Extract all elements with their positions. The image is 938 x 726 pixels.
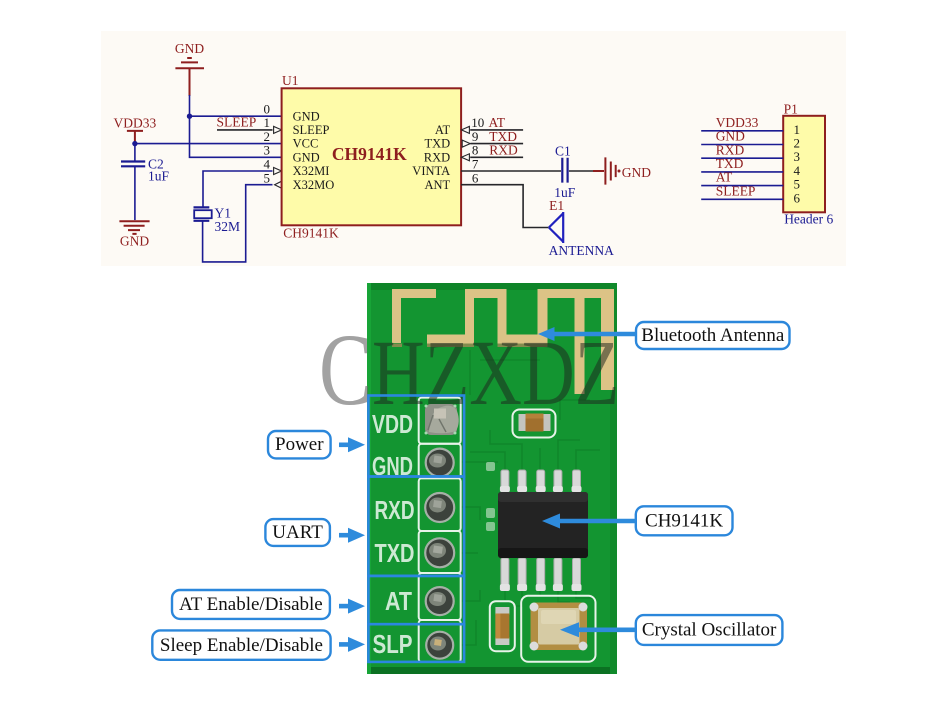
arrow to power pins — [339, 437, 365, 452]
junction on pin0 wire — [187, 114, 192, 119]
pad SLP — [426, 632, 453, 659]
svg-text:TXD: TXD — [375, 540, 415, 568]
annotation box around SLP pin — [368, 624, 464, 662]
arrow to AT pin — [339, 599, 365, 614]
SMD capacitor near antenna — [513, 410, 556, 438]
wire C1 to GND — [569, 170, 593, 172]
svg-text:SLEEP: SLEEP — [716, 183, 756, 198]
svg-text:X32MI: X32MI — [293, 164, 330, 178]
svg-text:GND: GND — [622, 165, 651, 180]
wire P1 pin1 — [701, 130, 783, 132]
svg-text:U1: U1 — [282, 73, 299, 88]
svg-text:5: 5 — [264, 170, 271, 185]
svg-text:6: 6 — [794, 190, 801, 205]
silkscreen box around SLP pad — [419, 620, 461, 662]
callout Power — [268, 431, 331, 458]
svg-text:10: 10 — [471, 115, 484, 130]
svg-text:CH9141K: CH9141K — [283, 225, 339, 240]
svg-text:AT Enable/Disable: AT Enable/Disable — [179, 594, 323, 615]
P1 pin numbers 1-6 — [794, 122, 801, 206]
svg-text:GND: GND — [293, 109, 320, 123]
antenna E1 symbol — [549, 212, 563, 243]
op-amp/IC U1 CH9141K body — [282, 88, 462, 225]
crystal oscillator component — [521, 596, 595, 662]
svg-text:RXD: RXD — [424, 150, 450, 164]
svg-text:X32MO: X32MO — [293, 178, 335, 192]
wire SLEEP to pin1 — [217, 129, 273, 131]
svg-text:HZXDZ: HZXDZ — [372, 322, 619, 426]
PCB board photo — [367, 283, 617, 674]
ground symbol below C2 — [119, 221, 149, 234]
wire RXD stub — [470, 156, 523, 158]
schematic background panel — [101, 31, 846, 266]
wire VINTA to C1 — [461, 170, 561, 172]
wire P1 pin3 — [701, 157, 783, 159]
antenna shadow edge — [392, 344, 548, 348]
arrow to crystal — [560, 622, 636, 637]
svg-text:SLEEP: SLEEP — [217, 115, 257, 130]
pin 4 input arrow — [274, 168, 282, 175]
svg-text:RXD: RXD — [489, 143, 518, 158]
crystal Y1 — [194, 171, 273, 262]
pin 10 input arrow — [461, 126, 469, 133]
annotation box around UART pins — [368, 477, 464, 576]
svg-text:C: C — [319, 313, 372, 427]
svg-text:TXD: TXD — [424, 137, 450, 151]
pad TXD — [425, 538, 454, 567]
svg-text:GND: GND — [293, 150, 320, 164]
IC chip CH9141K on board — [498, 470, 588, 591]
svg-text:UART: UART — [272, 522, 323, 543]
callout CH9141K — [636, 506, 733, 535]
silkscreen box around GND pad — [419, 444, 461, 479]
svg-text:AT: AT — [435, 123, 451, 137]
pin 8 input arrow — [461, 154, 469, 161]
wire TXD stub — [470, 143, 523, 145]
svg-text:Power: Power — [275, 434, 324, 455]
callout AT Enable/Disable — [172, 590, 330, 619]
svg-text:VCC: VCC — [293, 137, 319, 151]
svg-text:AT: AT — [385, 588, 412, 616]
svg-text:3: 3 — [264, 143, 271, 158]
svg-text:ANT: ANT — [424, 178, 450, 192]
svg-text:2: 2 — [264, 129, 271, 144]
annotation box around Power pins — [368, 396, 464, 477]
power VDD33 symbol — [127, 131, 143, 144]
wire P1 pin4 — [701, 171, 783, 173]
pad AT — [426, 587, 454, 615]
pin 5 output arrow — [275, 181, 282, 188]
wire ANT to antenna — [461, 185, 549, 228]
svg-text:E1: E1 — [549, 198, 564, 213]
svg-text:VINTA: VINTA — [412, 164, 450, 178]
wire P1 pin5 — [701, 185, 783, 187]
ground (top GND symbol) — [175, 58, 204, 96]
svg-text:6: 6 — [472, 170, 479, 185]
silkscreen box around TXD pad — [419, 531, 461, 573]
silkscreen box around AT pad — [419, 573, 461, 620]
svg-text:32M: 32M — [215, 219, 241, 234]
arrow to antenna — [538, 327, 636, 341]
svg-text:Crystal Oscillator: Crystal Oscillator — [642, 620, 777, 641]
svg-text:SLEEP: SLEEP — [293, 123, 330, 137]
pad GND — [426, 449, 454, 477]
callout UART — [265, 519, 330, 546]
svg-text:CH9141K: CH9141K — [332, 144, 407, 164]
svg-text:Sleep Enable/Disable: Sleep Enable/Disable — [160, 635, 323, 656]
svg-text:Bluetooth Antenna: Bluetooth Antenna — [641, 325, 785, 346]
svg-text:1uF: 1uF — [148, 168, 170, 183]
silkscreen marks left of chip — [486, 462, 495, 531]
arrow to chip — [542, 514, 636, 529]
wire GND vertical to pin3 — [190, 95, 282, 157]
svg-text:CH9141K: CH9141K — [645, 511, 723, 532]
wire P1 pin2 — [701, 144, 783, 146]
pad VDD (square pin 1) — [425, 404, 459, 435]
svg-text:4: 4 — [264, 157, 271, 172]
svg-text:AT: AT — [489, 115, 506, 130]
svg-text:VDD33: VDD33 — [114, 115, 157, 130]
svg-text:1: 1 — [264, 115, 271, 130]
svg-text:GND: GND — [175, 41, 204, 56]
callout Bluetooth Antenna — [636, 322, 790, 349]
svg-text:8: 8 — [472, 143, 479, 158]
wire pin0 GND — [190, 115, 282, 117]
junction VDD33/C2 — [132, 141, 137, 146]
arrow to SLP pin — [339, 637, 365, 652]
PCB copper traces — [461, 350, 600, 645]
watermark CHZXDZ — [319, 313, 619, 427]
wire P1 pin6 — [701, 198, 783, 200]
wire AT stub — [470, 129, 523, 131]
svg-text:0: 0 — [264, 101, 271, 116]
svg-text:GND: GND — [120, 234, 149, 249]
svg-text:TXD: TXD — [489, 129, 517, 144]
Bluetooth antenna copper meander — [392, 289, 614, 394]
arrow to UART pins — [339, 528, 365, 543]
pin 1 input arrow — [274, 126, 282, 133]
svg-text:SLP: SLP — [373, 631, 413, 659]
svg-text:RXD: RXD — [375, 497, 415, 525]
svg-text:7: 7 — [472, 157, 479, 172]
capacitor C2 — [121, 144, 145, 221]
pad RXD — [425, 493, 454, 522]
connector P1 header body — [783, 116, 825, 213]
svg-text:P1: P1 — [784, 101, 798, 116]
wire VDD33 to VCC pin2 — [135, 143, 282, 145]
svg-text:Header 6: Header 6 — [784, 211, 833, 226]
callout Crystal Oscillator — [636, 615, 783, 645]
ground symbol right (bar style) — [605, 157, 620, 184]
svg-text:9: 9 — [472, 129, 479, 144]
svg-text:ANTENNA: ANTENNA — [549, 243, 614, 258]
capacitor C1 — [562, 158, 567, 183]
silkscreen box around RXD pad — [419, 478, 461, 531]
annotation box around AT pin — [368, 576, 464, 624]
silkscreen box around VDD pad — [419, 398, 461, 444]
small capacitor next to crystal — [490, 601, 515, 651]
pin 9 output arrow — [462, 140, 470, 147]
svg-text:C1: C1 — [555, 144, 571, 159]
callout Sleep Enable/Disable — [152, 630, 330, 659]
